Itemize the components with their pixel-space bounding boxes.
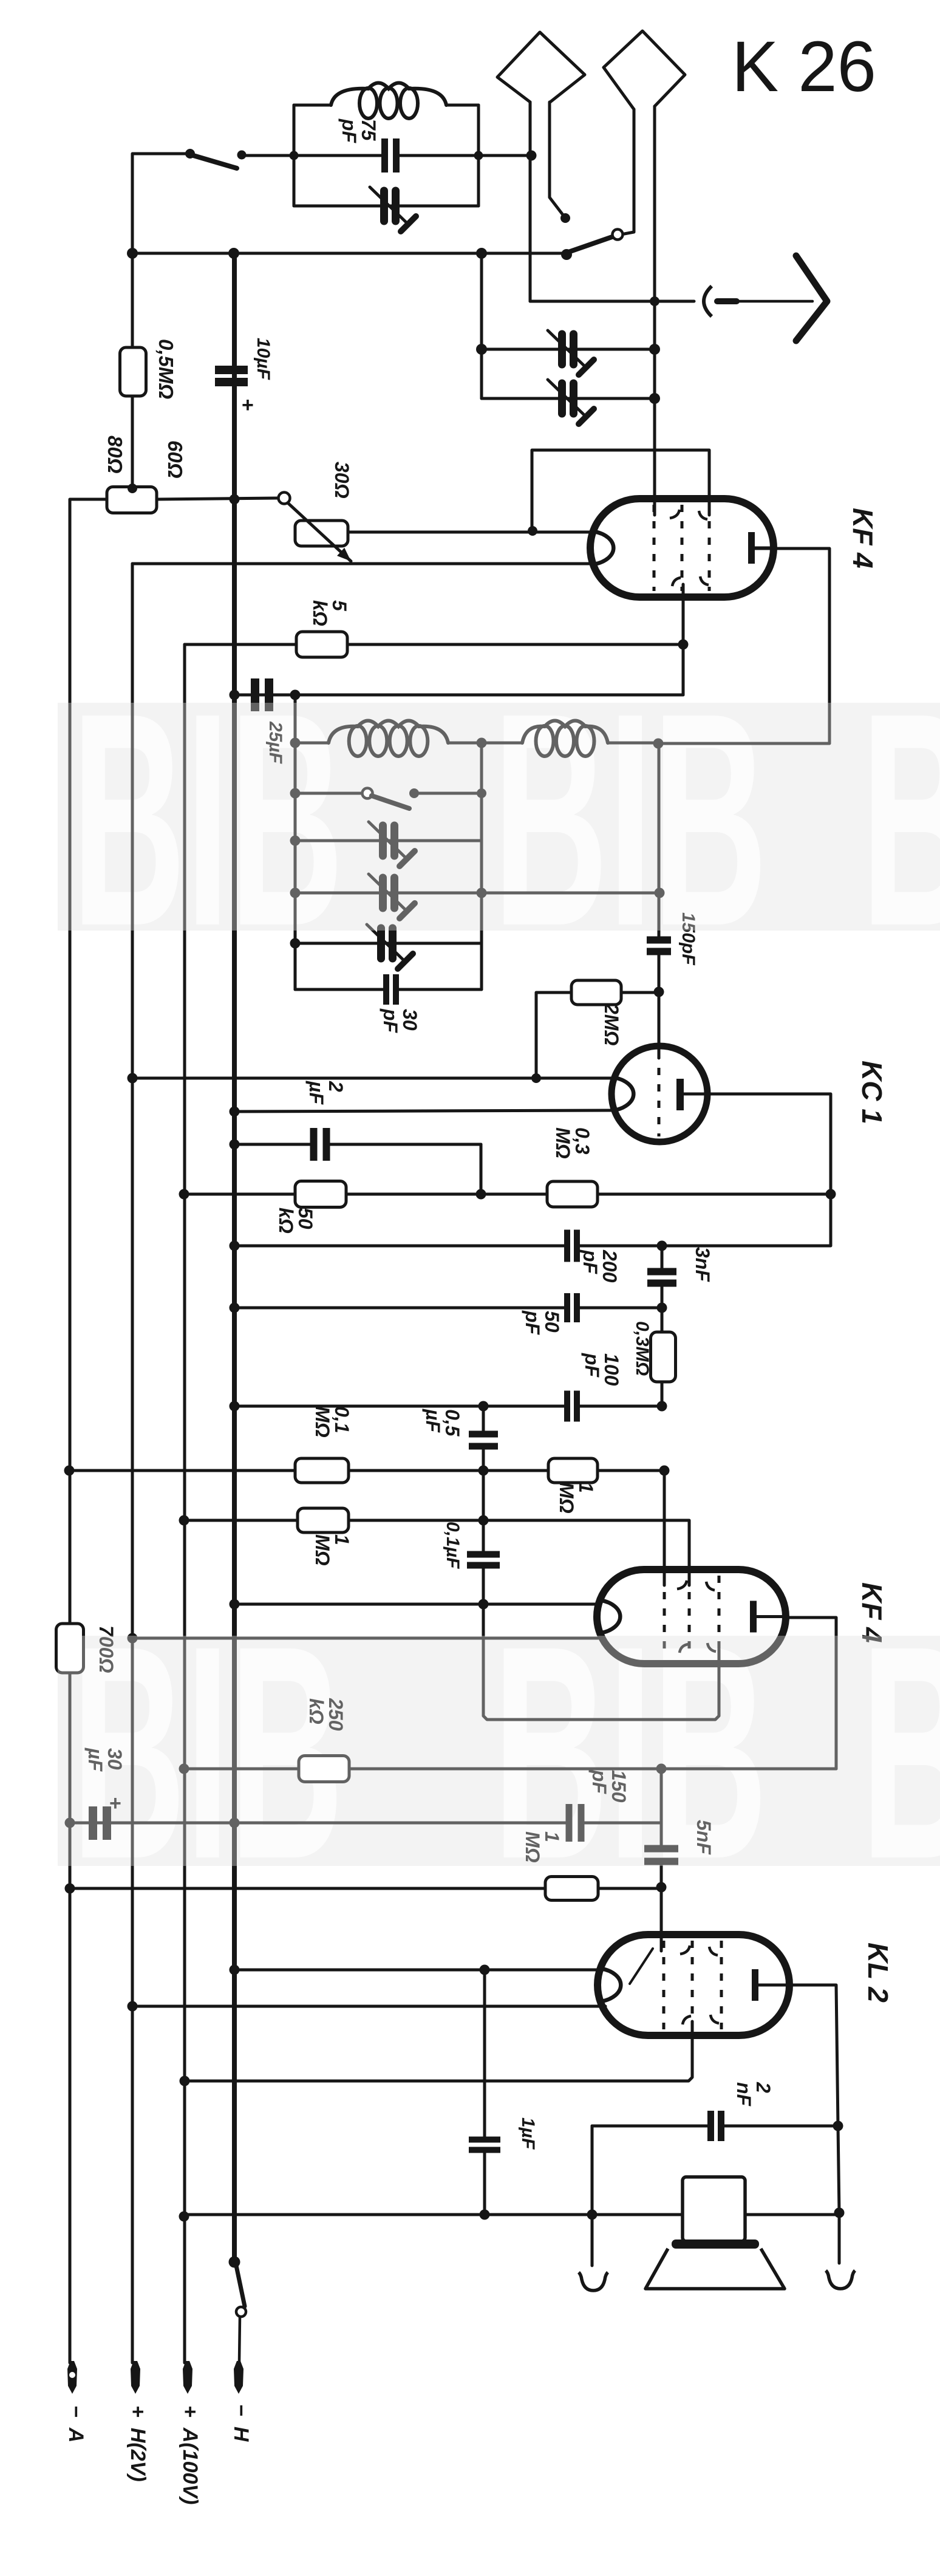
KC1 grid column <box>658 743 661 939</box>
svg-text:0,5MΩ: 0,5MΩ <box>155 339 177 399</box>
row 3001 (30uF + 150pF) <box>70 1822 569 1825</box>
node junction dots tank <box>290 151 299 160</box>
branch x793 bus to trimmer rows <box>480 253 483 398</box>
grid2-return row y=741 <box>532 450 709 528</box>
resistor 2M <box>571 980 621 1005</box>
bottom row 3646 <box>184 2213 839 2216</box>
svg-text:30Ω: 30Ω <box>331 462 353 499</box>
100pF row <box>234 1405 565 1408</box>
tube KF4 no1 <box>590 499 774 597</box>
capacitor 30pF row 1629 <box>295 988 384 991</box>
50pF row <box>234 1307 565 1310</box>
column 1089 down <box>660 1769 663 1849</box>
2nF row <box>592 2126 708 2213</box>
trimmer capacitor (tank) <box>294 205 479 208</box>
screen-grid column tube1 <box>682 584 685 695</box>
filament top wire tube1 <box>348 531 590 534</box>
svg-text:0,1MΩ: 0,1MΩ <box>312 1406 353 1438</box>
grid1 column tube2 <box>663 1471 666 1585</box>
svg-text:KF 4: KF 4 <box>856 1582 888 1643</box>
band trimmer row 1553 <box>295 942 482 945</box>
KC1 filament top row <box>132 1077 614 1080</box>
200pF row <box>234 1245 565 1248</box>
suppressor loop tube2 <box>483 1604 719 1720</box>
2uF row <box>234 1143 311 1146</box>
trimmer row A (575) <box>482 348 655 351</box>
thick rail (+A bus) x=386 <box>232 253 237 2262</box>
terminal plugs <box>67 2361 77 2394</box>
svg-text:+ H(2V): + H(2V) <box>126 2405 149 2482</box>
capacitor 5nF <box>644 1845 678 1853</box>
svg-text:10µF: 10µF <box>253 338 273 380</box>
capacitor 0.1uF <box>482 1520 485 1553</box>
potentiometer 80/60 ohm <box>107 487 157 513</box>
inductor L1 (75pF tank coil) <box>294 104 331 107</box>
antenna A1 right stem (open end) <box>550 102 564 216</box>
pot left lead to far-left rail <box>70 499 107 1624</box>
resistor 700 ohm <box>56 1624 84 1673</box>
svg-text:KF 4: KF 4 <box>847 508 879 569</box>
band trimmer row 1470 <box>295 892 659 895</box>
svg-text:30pF: 30pF <box>380 1008 421 1034</box>
svg-text:+ A(100V): + A(100V) <box>179 2405 202 2504</box>
trimmer row B (656) <box>482 397 655 400</box>
tube KC1 <box>611 1046 707 1142</box>
tube KF4 no2 <box>597 1570 786 1664</box>
svg-text:75pF: 75pF <box>338 118 380 144</box>
resistor 5k row <box>185 643 683 646</box>
KC1 filament bottom row <box>234 1110 614 1112</box>
KL2 screen row <box>185 2021 692 2081</box>
svg-text:KL 2: KL 2 <box>862 1942 894 2003</box>
svg-text:2MΩ: 2MΩ <box>601 1003 622 1045</box>
rheostat 30 ohm <box>279 493 290 504</box>
bottom switch (-H) <box>229 2257 240 2268</box>
svg-text:− A: − A <box>64 2405 87 2442</box>
tube KL2 <box>598 1935 789 2035</box>
switch S1 (wavechange top) <box>185 149 195 159</box>
coil L3 <box>482 742 522 745</box>
svg-text:K 26: K 26 <box>732 27 876 107</box>
svg-text:0,3MΩ: 0,3MΩ <box>552 1127 593 1159</box>
row 2421 (0.1M + 1M) <box>69 1469 664 1472</box>
coil L2 <box>295 742 329 745</box>
band right rail x=793 <box>480 743 483 989</box>
resistor 0.5M <box>131 253 134 347</box>
chain 1uF <box>483 1970 486 2139</box>
svg-text:3nF: 3nF <box>692 1247 714 1282</box>
svg-text:60Ω: 60Ω <box>164 440 186 479</box>
tank circuit right branch <box>477 105 480 206</box>
wire switch to tank <box>242 154 294 157</box>
KL2 filament bottom row <box>132 2005 605 2008</box>
band-switch block left rail x=486 <box>294 695 297 989</box>
50k row <box>184 1193 831 1196</box>
row 3109 (1M) <box>70 1887 661 1890</box>
electrolytic 25uF <box>251 678 259 711</box>
svg-text:50pF: 50pF <box>522 1310 563 1336</box>
antenna input symbol <box>704 286 712 316</box>
svg-text:1µF: 1µF <box>518 2117 538 2150</box>
svg-text:− H: − H <box>230 2404 253 2442</box>
chain x=796: 0.5uF <box>482 1406 485 1431</box>
bus row y=1144 with 25uF <box>234 694 683 697</box>
KL2 filament top row <box>234 1969 605 1972</box>
tube2 filament top row <box>234 1603 598 1606</box>
KC1 anode wire <box>662 1094 831 1246</box>
filament bottom wire tube1 <box>132 562 590 565</box>
loudspeaker <box>683 2177 745 2241</box>
resistor 0.3M vertical <box>661 1308 664 1332</box>
tank circuit left branch <box>293 105 296 206</box>
svg-text:+: + <box>242 394 254 417</box>
anode wire tube2 <box>786 1618 836 1769</box>
row 2503 (1M) to tube2 grid2 <box>184 1520 689 1585</box>
chain x=796 to 0.1uF <box>482 1471 485 1520</box>
antenna A2 right stem = grid feed wire <box>653 106 656 515</box>
electrolytic 10uF <box>215 366 248 374</box>
antenna A2 left stem to switch contact <box>624 109 634 234</box>
band switch row <box>295 792 362 795</box>
antenna feed line to arrow <box>530 300 694 303</box>
antenna A1 (frame) <box>497 32 585 102</box>
band trimmer row 1384 <box>295 839 482 842</box>
capacitor 150pF <box>647 937 671 944</box>
KL2 internal grid tie <box>630 1949 653 1984</box>
anode wire tube1 to coil2 <box>658 548 829 743</box>
svg-text:0,3MΩ: 0,3MΩ <box>632 1321 652 1376</box>
rail x=303 <box>183 644 186 2363</box>
left rail x=218 lower segment <box>131 564 134 2363</box>
anode wire KL2 <box>762 1985 839 2213</box>
switch S2 (antenna selector) <box>561 249 572 260</box>
svg-text:KC 1: KC 1 <box>856 1061 888 1124</box>
capacitor 75pF <box>294 154 384 157</box>
svg-text:80Ω: 80Ω <box>104 436 126 474</box>
antenna A1 left stem down to feed line <box>529 102 532 301</box>
capacitor 3nF <box>647 1268 676 1276</box>
pot right lead to rheostat <box>157 498 278 499</box>
wire top-left rail to switch <box>132 154 190 253</box>
svg-text:0,1µF: 0,1µF <box>443 1522 463 1569</box>
tube2 filament bottom row <box>132 1637 598 1640</box>
main bus wire y=417 <box>132 252 567 255</box>
antenna A2 (frame) <box>604 31 685 109</box>
speaker hooks <box>591 2215 594 2266</box>
row 2912 (250k) <box>184 1768 836 1771</box>
